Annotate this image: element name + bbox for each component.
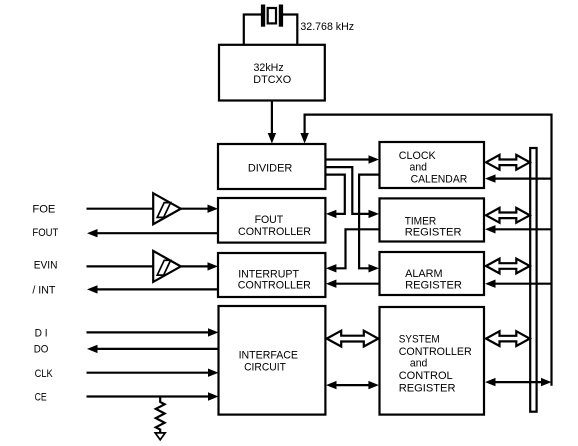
svg-text:DIVIDER: DIVIDER (248, 162, 292, 174)
svg-text:REGISTER: REGISTER (399, 382, 456, 394)
wire /INT output (87, 285, 218, 293)
resistor R1 pull-down on CE (156, 397, 165, 434)
crystal X1 left plate (261, 5, 265, 27)
svg-text:and: and (410, 358, 428, 370)
wire EVIN buffer to INTERRUPT CONTROLLER (181, 262, 218, 270)
wire DTCXO to DIVIDER (271, 101, 273, 135)
crystal X1 right plate (279, 5, 283, 27)
svg-text:FOUT: FOUT (32, 227, 58, 239)
svg-text:and: and (410, 161, 428, 173)
wire bus to ALARM REGISTER (485, 280, 552, 288)
svg-text:EVIN: EVIN (34, 260, 58, 272)
wire FOE input (87, 208, 154, 210)
bidirectional bus arrow TIMER REGISTER (486, 208, 530, 223)
bidirectional bus arrow CLOCK and CALENDAR (486, 155, 530, 170)
wire bus to CLOCK and CALENDAR (485, 174, 552, 182)
svg-text:CLOCK: CLOCK (399, 150, 436, 162)
wire TIMER REGISTER to INTERRUPT CONTROLLER (336, 229, 380, 268)
block INTERRUPT CONTROLLER (218, 253, 325, 297)
bidirectional bus arrow SYSTEM CONTROLLER (486, 331, 530, 346)
block INTERFACE CIRCUIT (219, 306, 326, 415)
ground open arrow below resistor (155, 433, 165, 440)
svg-text:D I: D I (35, 328, 48, 340)
block ALARM REGISTER (380, 252, 485, 295)
svg-text:INTERFACE: INTERFACE (239, 349, 299, 361)
block SYSTEM CONTROLLER and CONTROL REGISTER (380, 307, 485, 415)
wire DIVIDER to TIMER REGISTER (325, 167, 369, 214)
buffer FOE Schmitt trigger (153, 193, 181, 224)
wire bus to TIMER REGISTER (485, 225, 552, 233)
wire DIVIDER to FOUT CONTROLLER (325, 175, 344, 214)
wire bus feedback to DIVIDER top (305, 115, 552, 386)
svg-text:/ INT: / INT (32, 284, 55, 296)
wire DIVIDER to CLOCK and CALENDAR (325, 158, 369, 160)
bidirectional arrow INTERFACE to SYSTEM CONTROLLER (327, 331, 379, 347)
bus bar (530, 148, 536, 412)
bidirectional bus arrow ALARM REGISTER (486, 259, 530, 274)
block U1 32kHz DTCXO (219, 45, 325, 101)
svg-text:FOUT: FOUT (255, 214, 284, 226)
svg-text:TIMER: TIMER (405, 215, 437, 227)
wire CLOCK and CALENDAR to ALARM REGISTER (359, 175, 379, 269)
svg-text:SYSTEM: SYSTEM (399, 333, 440, 345)
svg-text:DO: DO (34, 344, 49, 356)
wire EVIN input (87, 265, 154, 267)
wire crystal left lead (244, 15, 261, 45)
wire FOUT output (87, 229, 218, 237)
svg-text:CONTROL: CONTROL (399, 370, 453, 382)
wire INTERFACE to SYSTEM CONTROLLER bidirectional (326, 381, 379, 389)
wire CLK input (87, 369, 219, 377)
svg-text:CALENDAR: CALENDAR (411, 173, 468, 185)
svg-text:CONTROLLER: CONTROLLER (238, 226, 311, 238)
wire bus to SYSTEM CONTROLLER bidirectional (485, 378, 552, 386)
svg-text:DTCXO: DTCXO (253, 74, 291, 86)
block TIMER REGISTER (380, 198, 485, 241)
wire crystal right lead (283, 15, 297, 45)
wire DO output (87, 345, 219, 353)
svg-text:32kHz: 32kHz (254, 62, 285, 74)
svg-text:CLK: CLK (35, 368, 54, 380)
block DIVIDER (218, 144, 325, 189)
svg-text:CE: CE (35, 391, 47, 403)
block FOUT CONTROLLER (218, 198, 325, 243)
crystal X1 body (268, 8, 276, 23)
svg-text:CONTROLLER: CONTROLLER (399, 346, 472, 358)
svg-text:REGISTER: REGISTER (405, 279, 462, 291)
svg-text:FOE: FOE (32, 203, 55, 215)
svg-text:CIRCUIT: CIRCUIT (244, 361, 286, 373)
wire DI input (87, 328, 219, 336)
buffer EVIN Schmitt trigger (153, 251, 181, 282)
svg-text:REGISTER: REGISTER (405, 227, 462, 239)
svg-text:CONTROLLER: CONTROLLER (238, 279, 311, 291)
wire ALARM REGISTER to INTERRUPT CONTROLLER (336, 283, 380, 285)
block CLOCK and CALENDAR (380, 142, 485, 188)
svg-text:32.768 kHz: 32.768 kHz (300, 21, 354, 33)
wire CE input (87, 392, 219, 400)
wire FOE buffer to FOUT CONTROLLER (181, 205, 218, 213)
svg-text:ALARM: ALARM (405, 268, 443, 280)
